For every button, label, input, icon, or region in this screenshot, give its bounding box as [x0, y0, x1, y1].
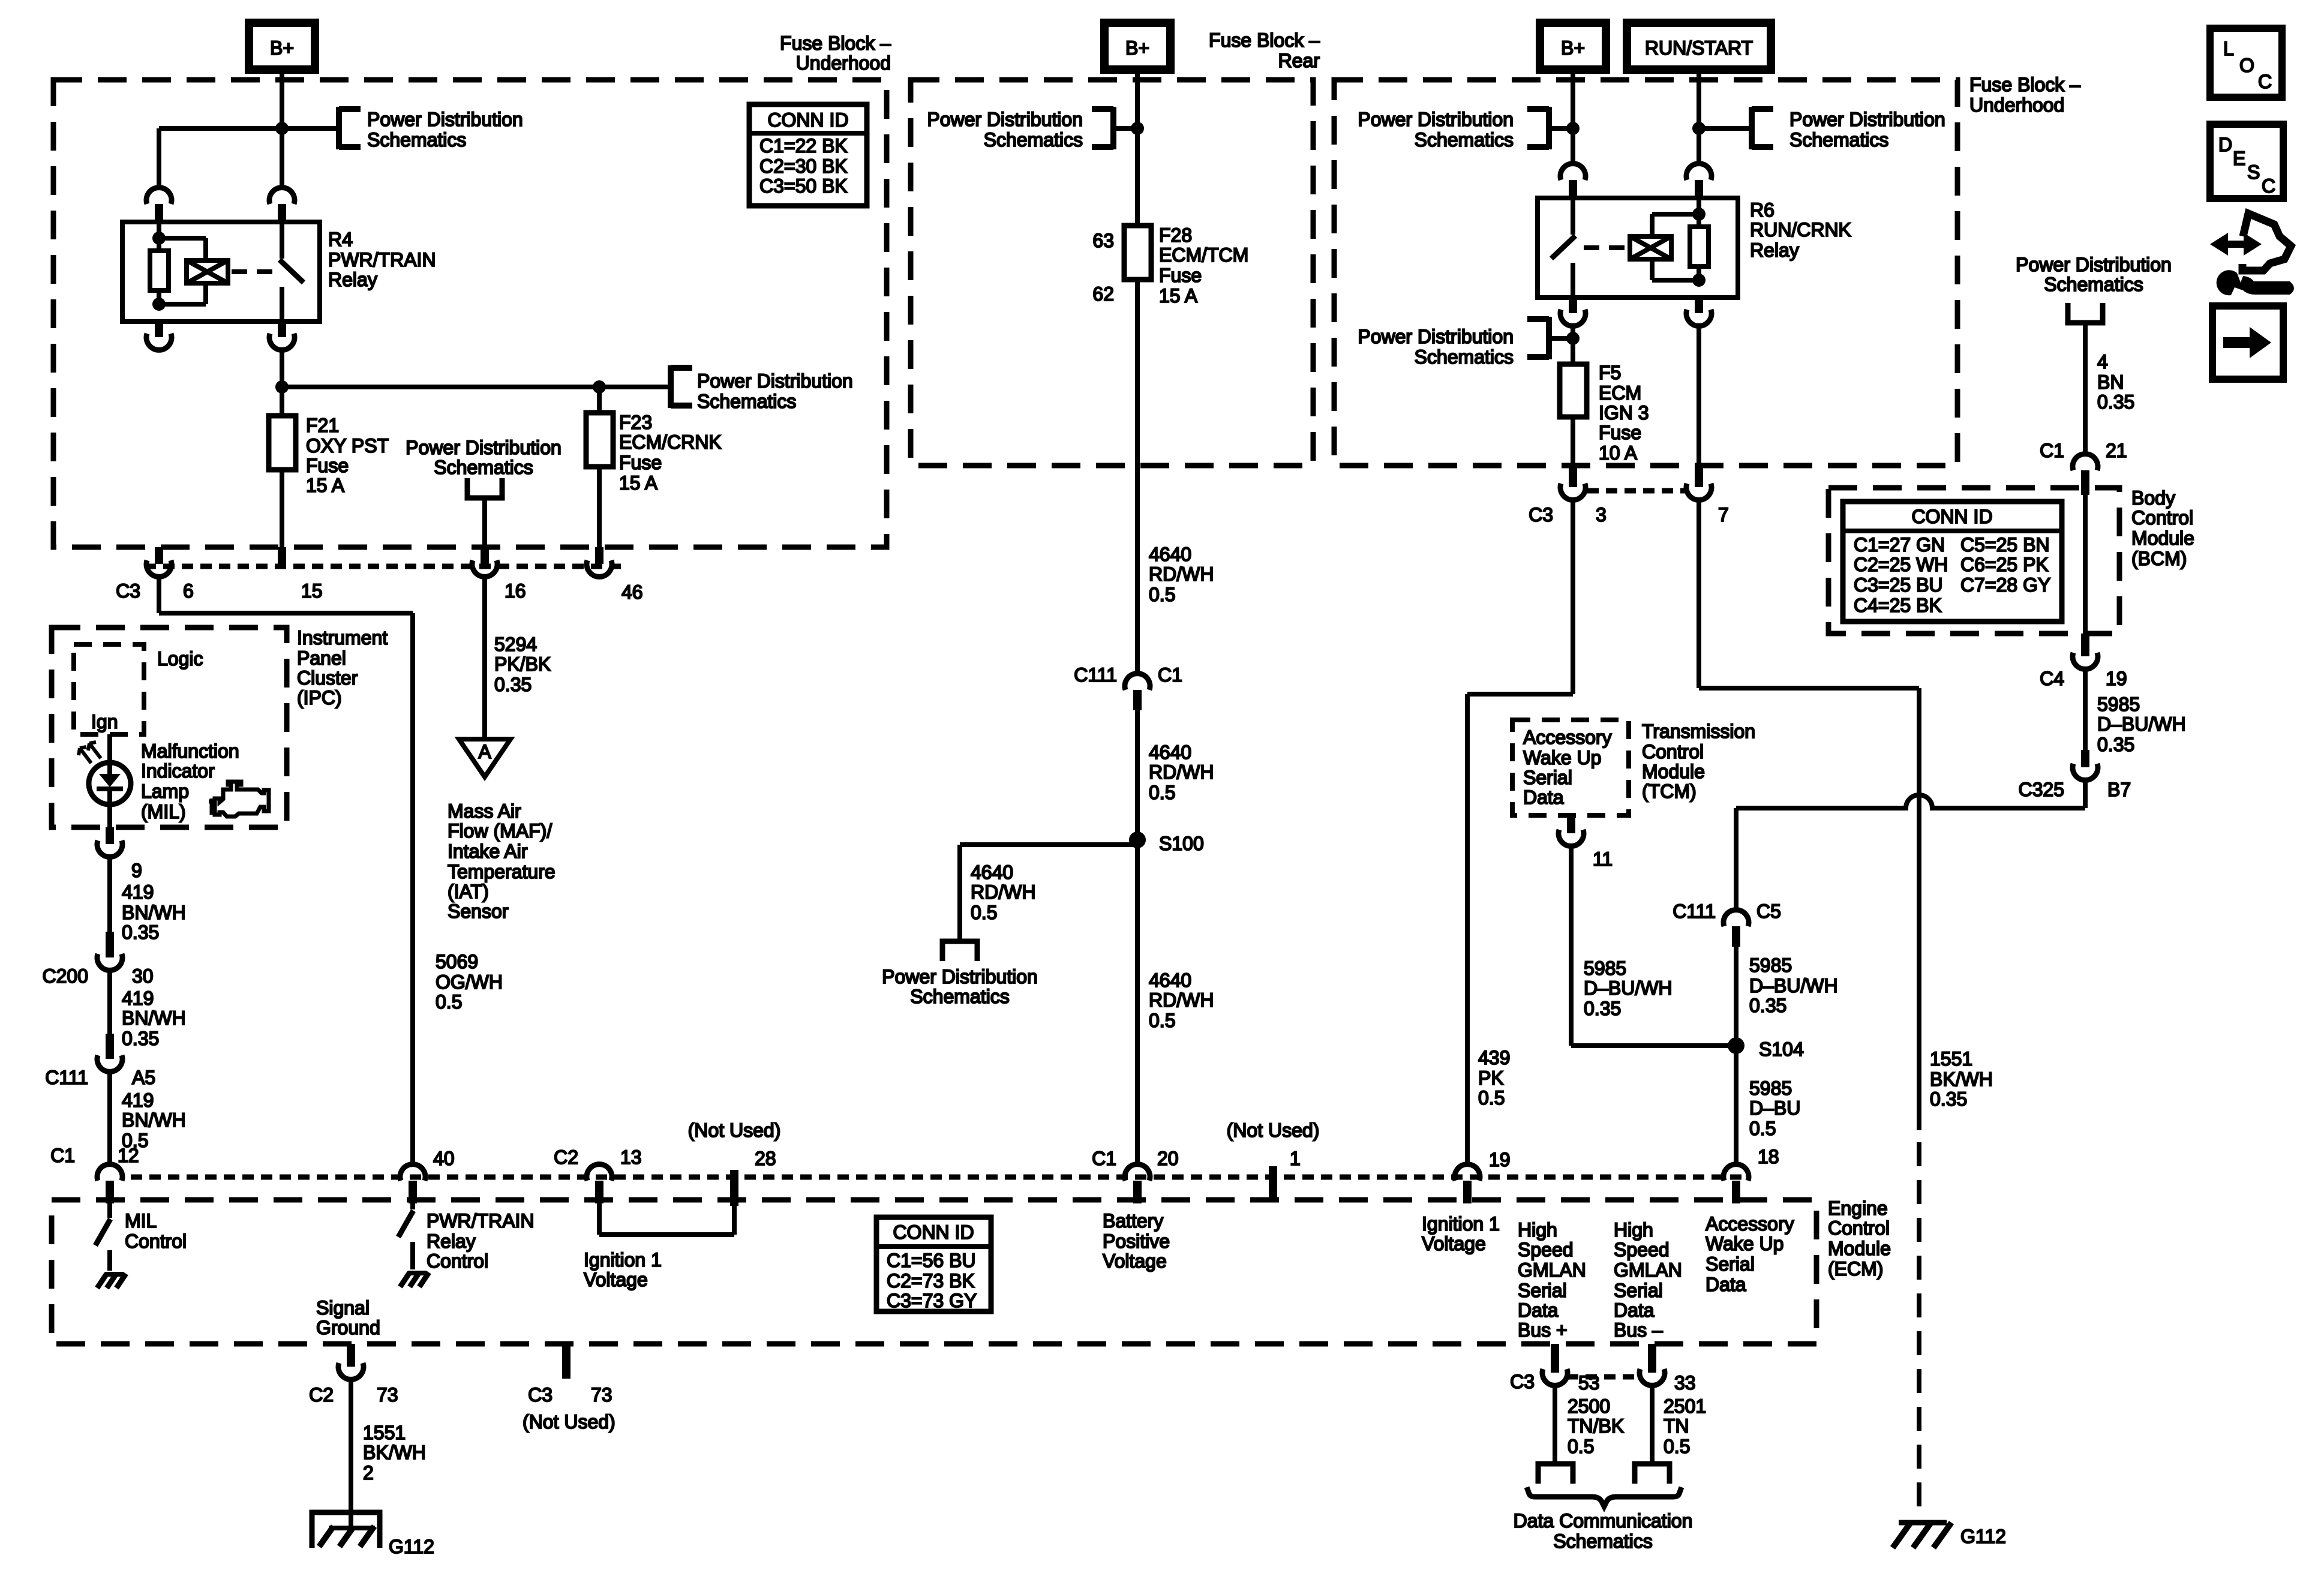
svg-text:BK/WH: BK/WH — [363, 1442, 426, 1463]
svg-text:CONN ID: CONN ID — [767, 109, 848, 131]
svg-text:Power Distribution: Power Distribution — [1358, 109, 1514, 130]
wire 439 PK (pin 3 to ECM 19) — [1467, 500, 1573, 1164]
svg-text:R6: R6 — [1750, 199, 1774, 221]
wire 5985 BCM to C325 — [2083, 669, 2088, 750]
svg-text:C: C — [2262, 175, 2275, 197]
label Transmission Control Module (TCM) — [1642, 721, 1755, 802]
connector pin below R6 switch (stub+arc) — [1560, 298, 1586, 326]
svg-text:40: 40 — [433, 1148, 455, 1169]
svg-text:C1=27 GN: C1=27 GN — [1854, 534, 1945, 556]
wire R4 coil loop bottom — [159, 283, 206, 304]
Fuse Block - Underhood box (right, dashed) — [1334, 80, 1957, 466]
wire R4 coil pin drop — [157, 128, 161, 190]
label wire 5985 D-BU/WH 0.35 (C5) — [1749, 954, 1838, 1016]
svg-text:Control: Control — [125, 1230, 187, 1252]
label wire 2500 TN/BK 0.5 — [1568, 1395, 1624, 1457]
wire RUN/START to R6 coil — [1697, 70, 1701, 166]
wire R6 coil to pin 7 — [1697, 326, 1701, 468]
label pin 73 (C3) — [591, 1384, 612, 1406]
svg-text:10 A: 10 A — [1599, 442, 1638, 464]
svg-text:0.5: 0.5 — [1149, 782, 1175, 803]
pointer to Power Distribution Schematics (B+ middle) — [1092, 107, 1113, 149]
svg-text:(ECM): (ECM) — [1828, 1258, 1883, 1280]
svg-text:73: 73 — [377, 1384, 398, 1406]
svg-text:5294: 5294 — [494, 634, 537, 655]
svg-text:Control: Control — [1828, 1217, 1890, 1239]
connector pin into R6 coil (arc+stub) — [1686, 164, 1712, 199]
label Logic — [157, 648, 203, 670]
ground G112 (signal ground) — [312, 1512, 380, 1548]
svg-text:Schematics: Schematics — [1415, 129, 1514, 151]
label pin 40 — [433, 1148, 455, 1169]
svg-text:Fuse Block –: Fuse Block – — [1969, 74, 2080, 95]
svg-text:Schematics: Schematics — [984, 129, 1083, 151]
connector pin below R4 switch (stub+arc) — [269, 322, 295, 350]
svg-text:Power Distribution: Power Distribution — [2016, 254, 2172, 275]
svg-text:Ignition 1: Ignition 1 — [1422, 1213, 1500, 1235]
svg-text:0.35: 0.35 — [122, 921, 159, 943]
svg-text:L: L — [2223, 38, 2234, 59]
label Ign — [91, 711, 118, 733]
svg-text:Control: Control — [2131, 507, 2193, 529]
svg-text:C3: C3 — [1529, 504, 1553, 526]
wire F23 drop — [597, 387, 602, 413]
connector line 53-33 (dotted) — [1567, 1374, 1640, 1380]
connector line ECM (dotted) — [131, 1175, 1750, 1180]
svg-text:21: 21 — [2106, 440, 2127, 461]
svg-text:0.35: 0.35 — [1584, 998, 1621, 1019]
node splice S104 — [1728, 1037, 1744, 1054]
svg-text:Positive: Positive — [1103, 1230, 1170, 1252]
wire through BCM — [2083, 495, 2088, 634]
label pin 1 — [1290, 1148, 1301, 1169]
wire 419 BN/WH segment 1 — [107, 857, 112, 932]
node junction F5 top — [1566, 332, 1580, 345]
svg-text:Power Distribution: Power Distribution — [1789, 109, 1945, 130]
svg-text:PK: PK — [1478, 1067, 1504, 1089]
node R4 coil bottom junction — [152, 298, 166, 311]
svg-text:Schematics: Schematics — [697, 391, 796, 412]
svg-text:RD/WH: RD/WH — [971, 881, 1035, 903]
svg-text:R4: R4 — [328, 229, 353, 250]
svg-text:Wake Up: Wake Up — [1706, 1233, 1783, 1254]
svg-text:Fuse Block –: Fuse Block – — [1209, 29, 1320, 51]
pointer to Power Distribution Schematics (B+ left) — [339, 107, 361, 149]
svg-text:D–BU/WH: D–BU/WH — [1584, 977, 1673, 999]
wire 5985 S104 to ECM 18 — [1734, 1046, 1739, 1164]
label pin 12 — [118, 1145, 139, 1166]
label C2 (ECM pin 13) — [554, 1146, 578, 1168]
wire Ign to MIL lamp — [107, 734, 112, 763]
pin 9 connector (stub+arc, IPC) — [97, 827, 122, 857]
svg-text:0.5: 0.5 — [1568, 1436, 1594, 1457]
label pin 28 — [755, 1148, 776, 1169]
relay R6 box — [1538, 198, 1738, 298]
svg-text:C3: C3 — [116, 580, 140, 602]
svg-text:C3=50 BK: C3=50 BK — [759, 175, 848, 197]
relay R6 linkage (dashed) — [1584, 245, 1626, 250]
connector pin into R4 switch (arc+stub) — [269, 188, 295, 223]
label (Not Used) pin 28 — [688, 1119, 781, 1141]
label Power Distribution Schematics (fuse feed) — [697, 370, 853, 412]
label C111 (lamp circuit) — [45, 1067, 88, 1088]
svg-text:IGN 3: IGN 3 — [1599, 402, 1649, 424]
svg-text:C5=25 BN: C5=25 BN — [1960, 534, 2050, 556]
svg-text:0.5: 0.5 — [1664, 1436, 1690, 1457]
svg-text:0.5: 0.5 — [1149, 1010, 1175, 1031]
connector C111 inline lamp circuit (stub+arc) — [97, 1034, 122, 1071]
label C3 (not used) — [528, 1384, 553, 1406]
svg-text:7: 7 — [1718, 504, 1729, 526]
wire B7 to C5 (with hop over 1551 wire) — [1736, 780, 2085, 910]
svg-text:PWR/TRAIN: PWR/TRAIN — [427, 1210, 535, 1232]
wire 419 BN/WH segment 3 — [107, 1071, 112, 1164]
pin 11 connector (stub+arc) — [1559, 815, 1584, 846]
svg-text:439: 439 — [1478, 1047, 1510, 1068]
svg-text:Schematics: Schematics — [1415, 346, 1514, 368]
svg-text:Schematics: Schematics — [367, 129, 466, 151]
fuse F21 OXY PST 15A — [269, 416, 296, 470]
label pin 30 — [132, 965, 154, 987]
label F5 ECM IGN 3 Fuse 10 A — [1599, 362, 1649, 464]
ground PWR/TRAIN relay control — [400, 1272, 429, 1287]
label Engine Control Module (ECM) — [1828, 1197, 1891, 1280]
svg-text:Wake Up: Wake Up — [1523, 747, 1601, 769]
label wire 5294 PK/BK 0.35 — [494, 634, 551, 695]
svg-text:C1: C1 — [2040, 440, 2064, 461]
svg-text:A: A — [478, 741, 491, 763]
wire R6 switch to F5 — [1571, 326, 1575, 364]
connector pin below R6 coil (stub+arc) — [1686, 298, 1712, 326]
svg-text:S104: S104 — [1759, 1038, 1804, 1060]
svg-text:5985: 5985 — [1584, 957, 1626, 979]
svg-text:Rear: Rear — [1278, 50, 1320, 71]
connector C325 inline (stub+arc) — [2073, 750, 2098, 780]
svg-text:C2=73 BK: C2=73 BK — [887, 1270, 975, 1292]
svg-text:B+: B+ — [270, 37, 294, 59]
coil R6 (X box) — [1630, 236, 1671, 259]
icon next-arrow box — [2212, 306, 2283, 379]
pin 28 stub (not used) — [730, 1170, 738, 1206]
svg-text:Indicator: Indicator — [141, 760, 215, 782]
svg-text:Serial: Serial — [1614, 1280, 1663, 1301]
svg-text:0.5: 0.5 — [436, 991, 462, 1013]
svg-text:12: 12 — [118, 1145, 139, 1166]
label pin 62 — [1092, 283, 1114, 305]
svg-text:Voltage: Voltage — [584, 1269, 648, 1290]
svg-text:(Not Used): (Not Used) — [1227, 1119, 1320, 1141]
Fuse Block - Rear box (middle, dashed) — [911, 80, 1313, 466]
label pin A5 — [132, 1067, 155, 1088]
svg-text:C3: C3 — [528, 1384, 553, 1406]
svg-text:Schematics: Schematics — [2044, 274, 2143, 295]
wire 4 BN drop — [2083, 323, 2088, 454]
svg-text:0.5: 0.5 — [1478, 1087, 1505, 1109]
svg-text:TN: TN — [1664, 1415, 1689, 1437]
svg-text:Power Distribution: Power Distribution — [882, 966, 1038, 987]
node junction B+ branch — [275, 122, 289, 135]
label pin 19 (BCM) — [2106, 668, 2127, 689]
node junction B+ middle — [1131, 122, 1144, 135]
svg-text:MIL: MIL — [125, 1210, 157, 1232]
svg-text:Fuse Block –: Fuse Block – — [780, 32, 891, 54]
svg-text:RUN/CRNK: RUN/CRNK — [1750, 219, 1851, 241]
svg-text:G112: G112 — [389, 1536, 434, 1557]
svg-text:Power Distribution: Power Distribution — [406, 437, 562, 458]
svg-text:Schematics: Schematics — [434, 457, 533, 478]
svg-text:Underhood: Underhood — [796, 52, 891, 74]
svg-text:OXY PST: OXY PST — [306, 435, 389, 457]
connector A triangle (MAF/IAT sensor) — [459, 739, 511, 777]
label wire 4640 RD/WH 0.5 (branch) — [971, 861, 1035, 923]
wire to pointer (F5 feed) — [1549, 336, 1573, 341]
svg-text:Power Distribution: Power Distribution — [367, 109, 523, 130]
svg-text:30: 30 — [132, 965, 154, 987]
label High Speed GMLAN Serial Data Bus - — [1614, 1219, 1682, 1341]
svg-text:(Not Used): (Not Used) — [523, 1411, 615, 1433]
svg-text:15 A: 15 A — [619, 472, 658, 494]
wire 1551 dashed continuation — [1917, 1142, 1921, 1523]
svg-text:1551: 1551 — [363, 1422, 406, 1443]
wire junction to F23 and pointer — [282, 385, 671, 389]
node R6 coil top junction — [1692, 208, 1706, 221]
wire jumper ECM pin 13 to 28 — [599, 1203, 734, 1235]
svg-text:B7: B7 — [2107, 779, 2131, 800]
svg-text:5069: 5069 — [436, 951, 478, 972]
svg-text:BN/WH: BN/WH — [122, 1109, 186, 1131]
pin 6 connector (stub+arc) — [146, 547, 172, 577]
label C111 (battery feed) — [1074, 664, 1117, 686]
svg-text:19: 19 — [1489, 1149, 1511, 1170]
label F23 ECM/CRNK Fuse 15 A — [619, 412, 722, 494]
pin 40 connector (arc+stub) — [400, 1164, 425, 1203]
svg-text:F5: F5 — [1599, 362, 1621, 383]
svg-text:Lamp: Lamp — [141, 781, 189, 802]
label wire 5985 D-BU/WH 0.35 (BCM) — [2097, 694, 2186, 755]
label Body Control Module (BCM) — [2131, 487, 2194, 569]
svg-text:(BCM): (BCM) — [2131, 548, 2187, 569]
svg-text:Fuse: Fuse — [306, 455, 349, 476]
wire R6 coil loop top — [1652, 214, 1699, 236]
label Ignition 1 Voltage (pin 19) — [1422, 1213, 1500, 1254]
label C3 (left fuse block) — [116, 580, 140, 602]
svg-text:C2=30 BK: C2=30 BK — [759, 155, 848, 177]
pointer to Power Distribution Schematics (F5 feed) — [1527, 317, 1549, 359]
svg-text:C2: C2 — [554, 1146, 578, 1168]
svg-text:RD/WH: RD/WH — [1149, 761, 1214, 783]
svg-text:Flow (MAF)/: Flow (MAF)/ — [448, 820, 552, 842]
icon LOC box — [2210, 28, 2282, 97]
svg-text:0.35: 0.35 — [2097, 391, 2134, 413]
svg-text:GMLAN: GMLAN — [1518, 1259, 1586, 1281]
label Battery Positive Voltage — [1103, 1210, 1170, 1272]
svg-text:C200: C200 — [43, 965, 89, 987]
label pin 15 — [301, 580, 323, 602]
svg-text:1: 1 — [1290, 1148, 1301, 1169]
pin 7 connector (stub+arc) — [1686, 466, 1712, 500]
svg-text:73: 73 — [591, 1384, 612, 1406]
label Power Distribution Schematics (F5 feed) — [1358, 326, 1514, 368]
label wire 4640 RD/WH 0.5 (1) — [1149, 544, 1214, 605]
wire 2500 TN/BK 0.5 — [1553, 1385, 1557, 1464]
svg-text:Fuse: Fuse — [619, 452, 662, 473]
svg-text:15 A: 15 A — [306, 475, 345, 496]
svg-text:C3=25 BU: C3=25 BU — [1854, 574, 1943, 596]
label S104 — [1759, 1038, 1804, 1060]
svg-text:Power Distribution: Power Distribution — [927, 109, 1083, 130]
pin 46 connector (stub+arc) — [587, 547, 612, 577]
wire B+ to R4 switch pin — [280, 70, 284, 190]
connector pin into R6 switch (arc+stub) — [1560, 164, 1586, 199]
svg-text:C1=56 BU: C1=56 BU — [887, 1250, 976, 1271]
svg-text:(IPC): (IPC) — [297, 687, 342, 709]
svg-text:18: 18 — [1758, 1146, 1779, 1167]
label wire 2501 TN 0.5 — [1664, 1395, 1706, 1457]
relay R6 coil pin inner wire — [1697, 199, 1701, 214]
svg-text:15: 15 — [301, 580, 323, 602]
svg-text:Bus –: Bus – — [1614, 1319, 1663, 1341]
svg-text:D–BU: D–BU — [1749, 1097, 1800, 1119]
pointer to Power Distribution Schematics (RUN/START) — [1752, 107, 1773, 149]
svg-text:Relay: Relay — [427, 1230, 476, 1252]
fuse F5 ECM IGN 3 10A — [1560, 364, 1587, 417]
svg-text:Battery: Battery — [1103, 1210, 1163, 1232]
svg-text:46: 46 — [621, 581, 643, 603]
svg-text:2: 2 — [363, 1462, 374, 1484]
svg-text:Relay: Relay — [328, 269, 377, 290]
label wire 4640 RD/WH 0.5 (2) — [1149, 742, 1214, 803]
pointer to Power Distribution Schematics (B+ right) — [1527, 107, 1549, 149]
fuse F28 ECM/TCM 15A — [1124, 226, 1151, 280]
switch R4 (blade) — [280, 223, 304, 322]
switch PWR/TRAIN relay control — [398, 1203, 413, 1269]
label pin 33 — [1674, 1372, 1696, 1394]
svg-text:Data Communication: Data Communication — [1514, 1510, 1693, 1532]
label pin 21 — [2106, 440, 2127, 461]
label pin B7 — [2107, 779, 2131, 800]
CONN ID box (ECM) — [876, 1217, 991, 1311]
svg-text:20: 20 — [1157, 1148, 1179, 1169]
label wire 1551 BK/WH 0.35 — [1930, 1048, 1993, 1110]
label Power Distribution Schematics (BCM feed) — [2016, 254, 2172, 295]
svg-text:C2=25 WH: C2=25 WH — [1854, 554, 1948, 575]
wire 4640 RD/WH segment 2 — [1135, 710, 1140, 840]
label Power Distribution Schematics (B+ left) — [367, 109, 523, 151]
svg-text:0.5: 0.5 — [1749, 1118, 1776, 1139]
svg-text:RUN/START: RUN/START — [1645, 37, 1753, 59]
label pin 18 — [1758, 1146, 1779, 1167]
svg-text:Speed: Speed — [1614, 1239, 1670, 1260]
label pin 19 (ECM) — [1489, 1149, 1511, 1170]
label C3 (data link) — [1510, 1371, 1535, 1392]
svg-text:Intake Air: Intake Air — [448, 840, 528, 862]
label F21 OXY PST Fuse 15 A — [306, 415, 389, 496]
svg-text:Schematics: Schematics — [1553, 1530, 1652, 1552]
svg-text:Data: Data — [1614, 1299, 1655, 1321]
pin 53 connector (stub+arc) — [1542, 1344, 1568, 1385]
label C4 (BCM) — [2040, 668, 2064, 689]
resistor R4 internal — [150, 238, 169, 304]
pin 33 connector (stub+arc) — [1640, 1344, 1665, 1385]
wire B+ to F28 — [1135, 70, 1140, 226]
svg-text:C1=22 BK: C1=22 BK — [759, 135, 848, 157]
label Mass Air Flow (MAF)/Intake Air Temperature (IAT) Sensor — [448, 800, 556, 922]
svg-text:TN/BK: TN/BK — [1568, 1415, 1624, 1437]
svg-text:Malfunction: Malfunction — [141, 740, 239, 762]
connector C111/C5 inline (arc+stub) — [1724, 910, 1749, 947]
power terminal RUN/START (feeds R6 relay coil) — [1627, 23, 1771, 70]
label G112 (right) — [1960, 1526, 2006, 1547]
power terminal B+ (feeds F28 fuse, Fuse Block - Rear) — [1104, 23, 1170, 70]
svg-text:16: 16 — [505, 580, 526, 602]
Logic box (dashed) — [74, 644, 144, 734]
label G112 (signal ground) — [389, 1536, 434, 1557]
svg-text:2500: 2500 — [1568, 1395, 1610, 1417]
wire R4 coil loop top — [159, 238, 206, 260]
svg-text:19: 19 — [2106, 668, 2127, 689]
svg-text:Accessory: Accessory — [1523, 727, 1612, 748]
wire R6 coil loop bottom — [1652, 259, 1699, 280]
label wire 5069 OG/WH 0.5 — [436, 951, 503, 1013]
svg-text:F21: F21 — [306, 415, 339, 436]
label C3 (right fuse block) — [1529, 504, 1553, 526]
svg-text:B+: B+ — [1125, 37, 1149, 59]
label wire 419 BN/WH 0.5 — [122, 1089, 186, 1151]
svg-text:419: 419 — [122, 881, 154, 903]
Instrument Panel Cluster box (dashed) — [52, 628, 287, 827]
svg-text:RD/WH: RD/WH — [1149, 989, 1214, 1011]
pin 1 stub (not used) — [1269, 1166, 1277, 1201]
label Accessory Wake Up Serial Data (TCM) — [1523, 727, 1612, 808]
svg-text:CONN ID: CONN ID — [893, 1221, 974, 1243]
svg-text:4640: 4640 — [1149, 742, 1191, 763]
svg-text:6: 6 — [183, 580, 194, 602]
svg-text:1551: 1551 — [1930, 1048, 1972, 1070]
wire F23 to pin 46 — [597, 465, 602, 547]
label C111 (serial data) — [1673, 900, 1716, 922]
svg-text:C1: C1 — [50, 1145, 75, 1166]
label pin 73 (C2) — [377, 1384, 398, 1406]
pointer from Power Distribution Schematics (BCM feed) — [2068, 303, 2103, 323]
node splice S100 — [1129, 831, 1146, 848]
svg-text:419: 419 — [122, 1089, 154, 1111]
svg-text:62: 62 — [1092, 283, 1114, 305]
power terminal B+ (feeds R6 relay) — [1540, 23, 1606, 70]
svg-text:9: 9 — [131, 860, 142, 881]
pin 12 connector (arc+stub) — [97, 1164, 122, 1203]
connector C1 into BCM (arc+stub) — [2073, 454, 2098, 495]
connector pin below R4 coil (stub+arc) — [146, 322, 172, 350]
wire F5 to pin 3 — [1571, 417, 1575, 468]
connector line C3-7 (dotted) — [1587, 488, 1685, 494]
svg-text:C325: C325 — [2019, 779, 2065, 800]
label Power Distribution Schematics (S100 branch) — [882, 966, 1038, 1007]
svg-text:5985: 5985 — [1749, 954, 1792, 976]
svg-text:(TCM): (TCM) — [1642, 781, 1697, 802]
label pin 46 — [621, 581, 643, 603]
svg-text:Ign: Ign — [91, 711, 118, 733]
wire 419 BN/WH segment 2 — [107, 970, 112, 1034]
svg-text:Ignition 1: Ignition 1 — [584, 1249, 662, 1271]
wire 1551 BK/WH (R6 coil ground) — [1699, 500, 1919, 1130]
label C1 (battery feed) — [1158, 664, 1182, 686]
node junction B+ right — [1566, 122, 1580, 135]
svg-text:Schematics: Schematics — [1789, 129, 1888, 151]
svg-text:0.35: 0.35 — [122, 1028, 159, 1049]
icon adjust arrow with wrench — [2210, 214, 2294, 295]
svg-text:B+: B+ — [1561, 37, 1585, 59]
svg-text:(MIL): (MIL) — [141, 801, 186, 822]
